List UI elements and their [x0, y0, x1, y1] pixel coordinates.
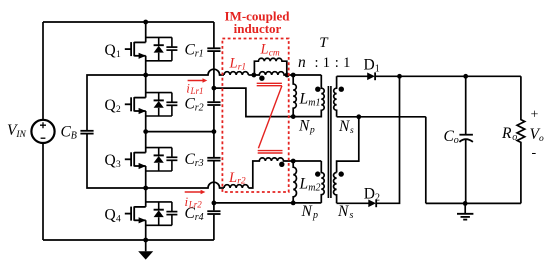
- wire node1 to Lr1 with hop over Cr rail: [146, 69, 224, 75]
- capacitor CB: [80, 131, 93, 134]
- label Np top: [298, 118, 315, 136]
- svg-text:cm: cm: [269, 48, 280, 58]
- wire node3 to Lr2 with hop over Cr rail: [146, 182, 224, 188]
- svg-text:N: N: [301, 203, 314, 220]
- label Cr1: [185, 42, 204, 60]
- node 1 Q1-Q2 midpoint: [143, 73, 148, 78]
- svg-text:IN: IN: [15, 130, 26, 140]
- svg-text::: :: [335, 55, 339, 71]
- wire D1 cathode to output plus rail: [375, 75, 521, 77]
- label VIN: [7, 122, 27, 140]
- svg-text:Q: Q: [105, 97, 116, 114]
- junction Q4 source to bottom rail: [143, 238, 148, 243]
- winding Np bottom: [321, 161, 324, 203]
- svg-text:o: o: [512, 132, 517, 143]
- polarity dot Np top: [315, 87, 320, 92]
- junction Cr3-Cr4: [212, 201, 217, 206]
- junction Co bottom ground: [463, 201, 468, 206]
- wire center tap drop to output minus rail: [425, 117, 427, 204]
- inductor coupled in-line winding bottom: [248, 158, 321, 188]
- label Q1: [105, 42, 122, 60]
- winding Ns top: [334, 76, 337, 117]
- junction Lm2 bottom: [291, 201, 296, 206]
- svg-text:1: 1: [116, 50, 121, 60]
- wire Cr ladder rail x=213.9: [213, 22, 215, 240]
- svg-text:L: L: [299, 175, 309, 192]
- label Ro: [501, 125, 517, 143]
- svg-text:r2: r2: [237, 177, 246, 187]
- wire switch leg x=145.7: [145, 22, 147, 240]
- polarity dot Ns bottom: [339, 171, 344, 176]
- svg-text::: :: [315, 55, 319, 71]
- svg-text:r2: r2: [195, 103, 204, 114]
- svg-text:2: 2: [116, 105, 121, 115]
- svg-text:-: -: [532, 146, 537, 161]
- polarity dot in-line winding bottom: [279, 162, 284, 167]
- label iLr1: [186, 81, 203, 97]
- label Q3: [105, 152, 122, 170]
- label Cr3: [185, 151, 204, 169]
- wire Cr3/Cr4 junction to primary2 return: [214, 202, 321, 204]
- wire Ns1 bottom (center tap rail): [337, 116, 426, 118]
- polarity dot Np bottom: [315, 171, 320, 176]
- label iLr2: [185, 194, 203, 210]
- node 3 Q3-Q4 midpoint: [143, 186, 148, 191]
- label Ns top: [338, 118, 354, 136]
- label D1: [364, 57, 380, 75]
- label Cr4: [185, 205, 204, 223]
- junction Lm1 top: [291, 73, 296, 78]
- label Np bottom: [301, 203, 319, 221]
- polarity dot in-line winding top: [259, 76, 264, 81]
- transistor Q3: [125, 148, 178, 171]
- inductor Lm1: [293, 75, 296, 117]
- junction D1-D2 cathodes: [397, 74, 402, 79]
- transistor Q4: [125, 202, 178, 225]
- svg-text:o: o: [539, 134, 544, 144]
- transformer core: [328, 86, 331, 198]
- winding Np top: [293, 75, 324, 117]
- label Co: [444, 128, 459, 146]
- polarity dot Ns top: [339, 87, 344, 92]
- junction Cr1-Cr2: [212, 86, 217, 91]
- svg-text:r1: r1: [195, 49, 204, 60]
- diode D1: [367, 72, 375, 80]
- svg-text:m2: m2: [308, 182, 320, 193]
- svg-text:1: 1: [323, 55, 330, 71]
- label Q4: [105, 206, 122, 224]
- wire top rail: [43, 21, 214, 23]
- wire Ns2 bottom to D2: [337, 202, 369, 204]
- inductor Lcm branch: [254, 58, 286, 75]
- svg-text:+: +: [531, 108, 539, 123]
- svg-text:s: s: [350, 126, 354, 136]
- svg-text:1: 1: [375, 64, 380, 75]
- capacitor Cr1: [207, 48, 220, 51]
- svg-text:4: 4: [116, 214, 121, 224]
- svg-text:3: 3: [116, 160, 121, 170]
- svg-text:D: D: [364, 186, 375, 203]
- svg-text:L: L: [260, 42, 269, 58]
- junction top rail to Q1 drain: [143, 20, 148, 25]
- wire output minus rail: [426, 202, 521, 204]
- transistor Q2: [125, 93, 178, 116]
- wire left rail upper: [42, 22, 44, 120]
- svg-text:L: L: [228, 170, 237, 186]
- label CB: [61, 124, 77, 142]
- svg-text:Q: Q: [105, 42, 116, 59]
- node A Lr1 to coupled windings: [252, 73, 257, 78]
- svg-text:p: p: [312, 210, 318, 221]
- svg-text:L: L: [229, 56, 238, 72]
- inductor Lr2: [224, 185, 248, 188]
- ground output earth: [457, 203, 473, 219]
- svg-text:Q: Q: [105, 152, 116, 169]
- junction Co top: [463, 74, 468, 79]
- current arrow iLr1: [188, 78, 208, 83]
- svg-text:r4: r4: [195, 212, 204, 223]
- label Lr1: [229, 56, 247, 73]
- label n:1:1: [298, 54, 350, 71]
- svg-text:D: D: [364, 57, 375, 74]
- wire midpoint node2 to Cr2/Cr3 junction: [146, 131, 214, 133]
- svg-text:inductor: inductor: [234, 21, 282, 36]
- label Lcm: [260, 42, 280, 59]
- node B coupled windings join: [285, 73, 290, 78]
- transistor Q1: [125, 37, 178, 60]
- svg-text:r1: r1: [238, 62, 246, 72]
- label Lm2: [299, 175, 321, 193]
- junction secondary center tap: [356, 114, 361, 119]
- svg-text:L: L: [299, 91, 309, 108]
- svg-text:p: p: [309, 126, 315, 136]
- svg-text:B: B: [71, 131, 77, 142]
- coupling symbol red Z: [257, 83, 283, 153]
- label Q2: [105, 97, 122, 115]
- wire D2 cathode up to output plus rail: [376, 76, 400, 203]
- svg-text:s: s: [350, 210, 354, 221]
- current arrow iLr2: [185, 190, 206, 195]
- ground power: [138, 240, 153, 260]
- svg-text:Q: Q: [105, 206, 116, 223]
- svg-text:n: n: [298, 54, 306, 71]
- svg-text:2: 2: [375, 193, 380, 204]
- wire Lr1 to node A: [248, 74, 254, 76]
- node 2 Q2-Q3 midpoint: [143, 129, 148, 134]
- IM-coupled inductor dashed box: [222, 39, 288, 193]
- junction Lm2 top: [291, 159, 296, 164]
- wire CB branch upper: [87, 75, 146, 130]
- wire center tap to Ns2: [337, 117, 359, 173]
- svg-text:m1: m1: [308, 98, 320, 109]
- wire CB branch lower: [87, 134, 146, 188]
- voltage source VIN: [31, 120, 54, 143]
- svg-text:o: o: [454, 135, 459, 146]
- label IM-coupled inductor: [225, 8, 291, 36]
- svg-text:R: R: [501, 125, 512, 142]
- wire Ns1 top to D1: [337, 75, 368, 77]
- capacitor Cr3: [207, 158, 220, 161]
- capacitor Cr4: [207, 211, 220, 214]
- junction Lm1 bottom: [291, 114, 296, 119]
- inductor Lr1: [224, 72, 248, 75]
- svg-text:N: N: [337, 203, 350, 220]
- label D2: [364, 186, 380, 204]
- label Ns bottom: [337, 203, 354, 221]
- svg-text:r3: r3: [195, 158, 204, 169]
- svg-text:Lr1: Lr1: [190, 86, 204, 96]
- wire Cr1/Cr2 junction to primary1 return: [214, 88, 293, 117]
- svg-text:Lr2: Lr2: [188, 199, 203, 209]
- label Vo: [530, 126, 545, 144]
- winding Ns bottom: [334, 173, 337, 204]
- wire bottom rail: [43, 239, 214, 241]
- inductor Lm2: [293, 161, 296, 203]
- resistor Ro: [517, 76, 525, 203]
- capacitor Co: [459, 76, 473, 203]
- wire left rail lower: [42, 143, 44, 240]
- diode D2: [368, 199, 376, 207]
- label Lm1: [299, 91, 321, 109]
- label Lr2: [228, 170, 246, 187]
- svg-text:1: 1: [343, 55, 350, 71]
- junction Cr2-Cr3 midpoint: [212, 129, 217, 134]
- inductor coupled in-line winding top: [254, 72, 321, 75]
- label Cr2: [185, 96, 204, 114]
- capacitor Cr2: [207, 102, 220, 105]
